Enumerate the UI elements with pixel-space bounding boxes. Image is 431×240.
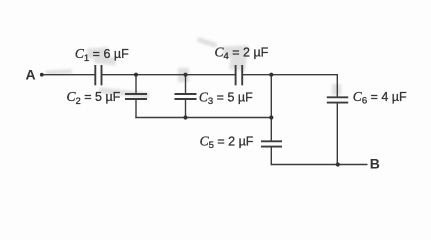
capacitor C5 plates (261, 140, 282, 142)
wire bottom horizontal (271, 164, 368, 166)
junction dot C3 top (183, 73, 187, 77)
junction dot C5 top (269, 73, 273, 77)
junction dot C6 bottom (336, 162, 340, 166)
capacitor C2 plates (125, 93, 147, 95)
wire C4 to C6 corner (242, 74, 338, 76)
wire C2 branch upper (135, 75, 137, 94)
wire C3 branch lower (185, 99, 187, 118)
svg-text:B: B (370, 156, 380, 172)
wire C5 branch lower (270, 147, 272, 166)
capacitor C6 plates (327, 96, 348, 98)
svg-text:C2 = 5 µF: C2 = 5 µF (67, 89, 121, 107)
svg-text:C3 = 5 µF: C3 = 5 µF (199, 90, 253, 108)
svg-text:C1 = 6 µF: C1 = 6 µF (75, 46, 129, 64)
wire middle horizontal (135, 117, 271, 119)
wire C6 branch upper (336, 74, 338, 97)
capacitor C1 plates (94, 65, 96, 85)
wire C1 to C4 (102, 74, 236, 76)
junction dot C3 bottom (183, 115, 187, 119)
junction dot C2 top (134, 73, 138, 77)
wire C2 branch lower (135, 99, 137, 118)
wire C6 branch lower (336, 103, 338, 165)
wire A to C1 (42, 74, 96, 76)
capacitor C3 plates (175, 93, 197, 95)
node A terminal dot (40, 73, 44, 77)
wire C5 branch upper (270, 75, 272, 142)
wire C3 branch upper (185, 75, 187, 94)
svg-text:C5 = 2 µF: C5 = 2 µF (200, 134, 254, 152)
junction dot middle-right (269, 115, 273, 119)
svg-text:C6 = 4 µF: C6 = 4 µF (353, 89, 407, 107)
svg-text:A: A (26, 67, 36, 83)
svg-text:C4 = 2 µF: C4 = 2 µF (215, 45, 269, 63)
capacitor C4 plates (235, 65, 237, 85)
